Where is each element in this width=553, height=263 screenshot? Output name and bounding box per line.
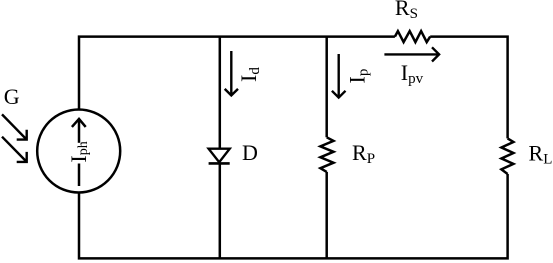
current source arrowhead: [72, 119, 86, 127]
arrow Ipv head: [432, 47, 439, 61]
resistor RL (load, vertical zigzag): [501, 138, 513, 174]
diode D cathode bar: [209, 162, 230, 165]
arrow Id shaft: [230, 51, 232, 95]
svg-text:Ipv: Ipv: [401, 60, 424, 87]
resistor RS (series, horizontal zigzag): [395, 31, 430, 42]
wire: diode branch bottom: [219, 163, 222, 258]
light arrow 1 head: [17, 130, 27, 140]
light arrow 2 head: [17, 152, 27, 162]
current source arrow tail (bottom segment): [78, 164, 81, 187]
light arrow 2 shaft: [2, 137, 27, 162]
current source Iph (circle): [37, 110, 120, 193]
svg-text:D: D: [242, 140, 258, 165]
wire: outer loop (top-left, left, bottom, right segments): [79, 37, 508, 259]
diode D (triangle): [209, 149, 230, 163]
arrow Id head: [225, 89, 238, 96]
resistor RP (shunt, vertical zigzag): [320, 137, 333, 172]
arrow Ipv shaft: [384, 53, 438, 55]
svg-text:Ip: Ip: [344, 69, 371, 84]
arrow Ip shaft: [338, 54, 340, 97]
svg-text:G: G: [4, 84, 20, 109]
current source arrow shaft (top segment): [78, 119, 81, 143]
svg-text:RS: RS: [395, 0, 418, 22]
arrow Ip head: [332, 91, 346, 98]
svg-text:RP: RP: [352, 140, 375, 167]
wire: Rp branch top: [325, 37, 328, 138]
svg-text:RL: RL: [529, 141, 553, 168]
wire: diode branch top: [219, 37, 222, 149]
light arrow 1 shaft: [2, 114, 27, 139]
wire: Rp branch bottom: [325, 172, 328, 259]
svg-text:Id: Id: [236, 67, 263, 82]
